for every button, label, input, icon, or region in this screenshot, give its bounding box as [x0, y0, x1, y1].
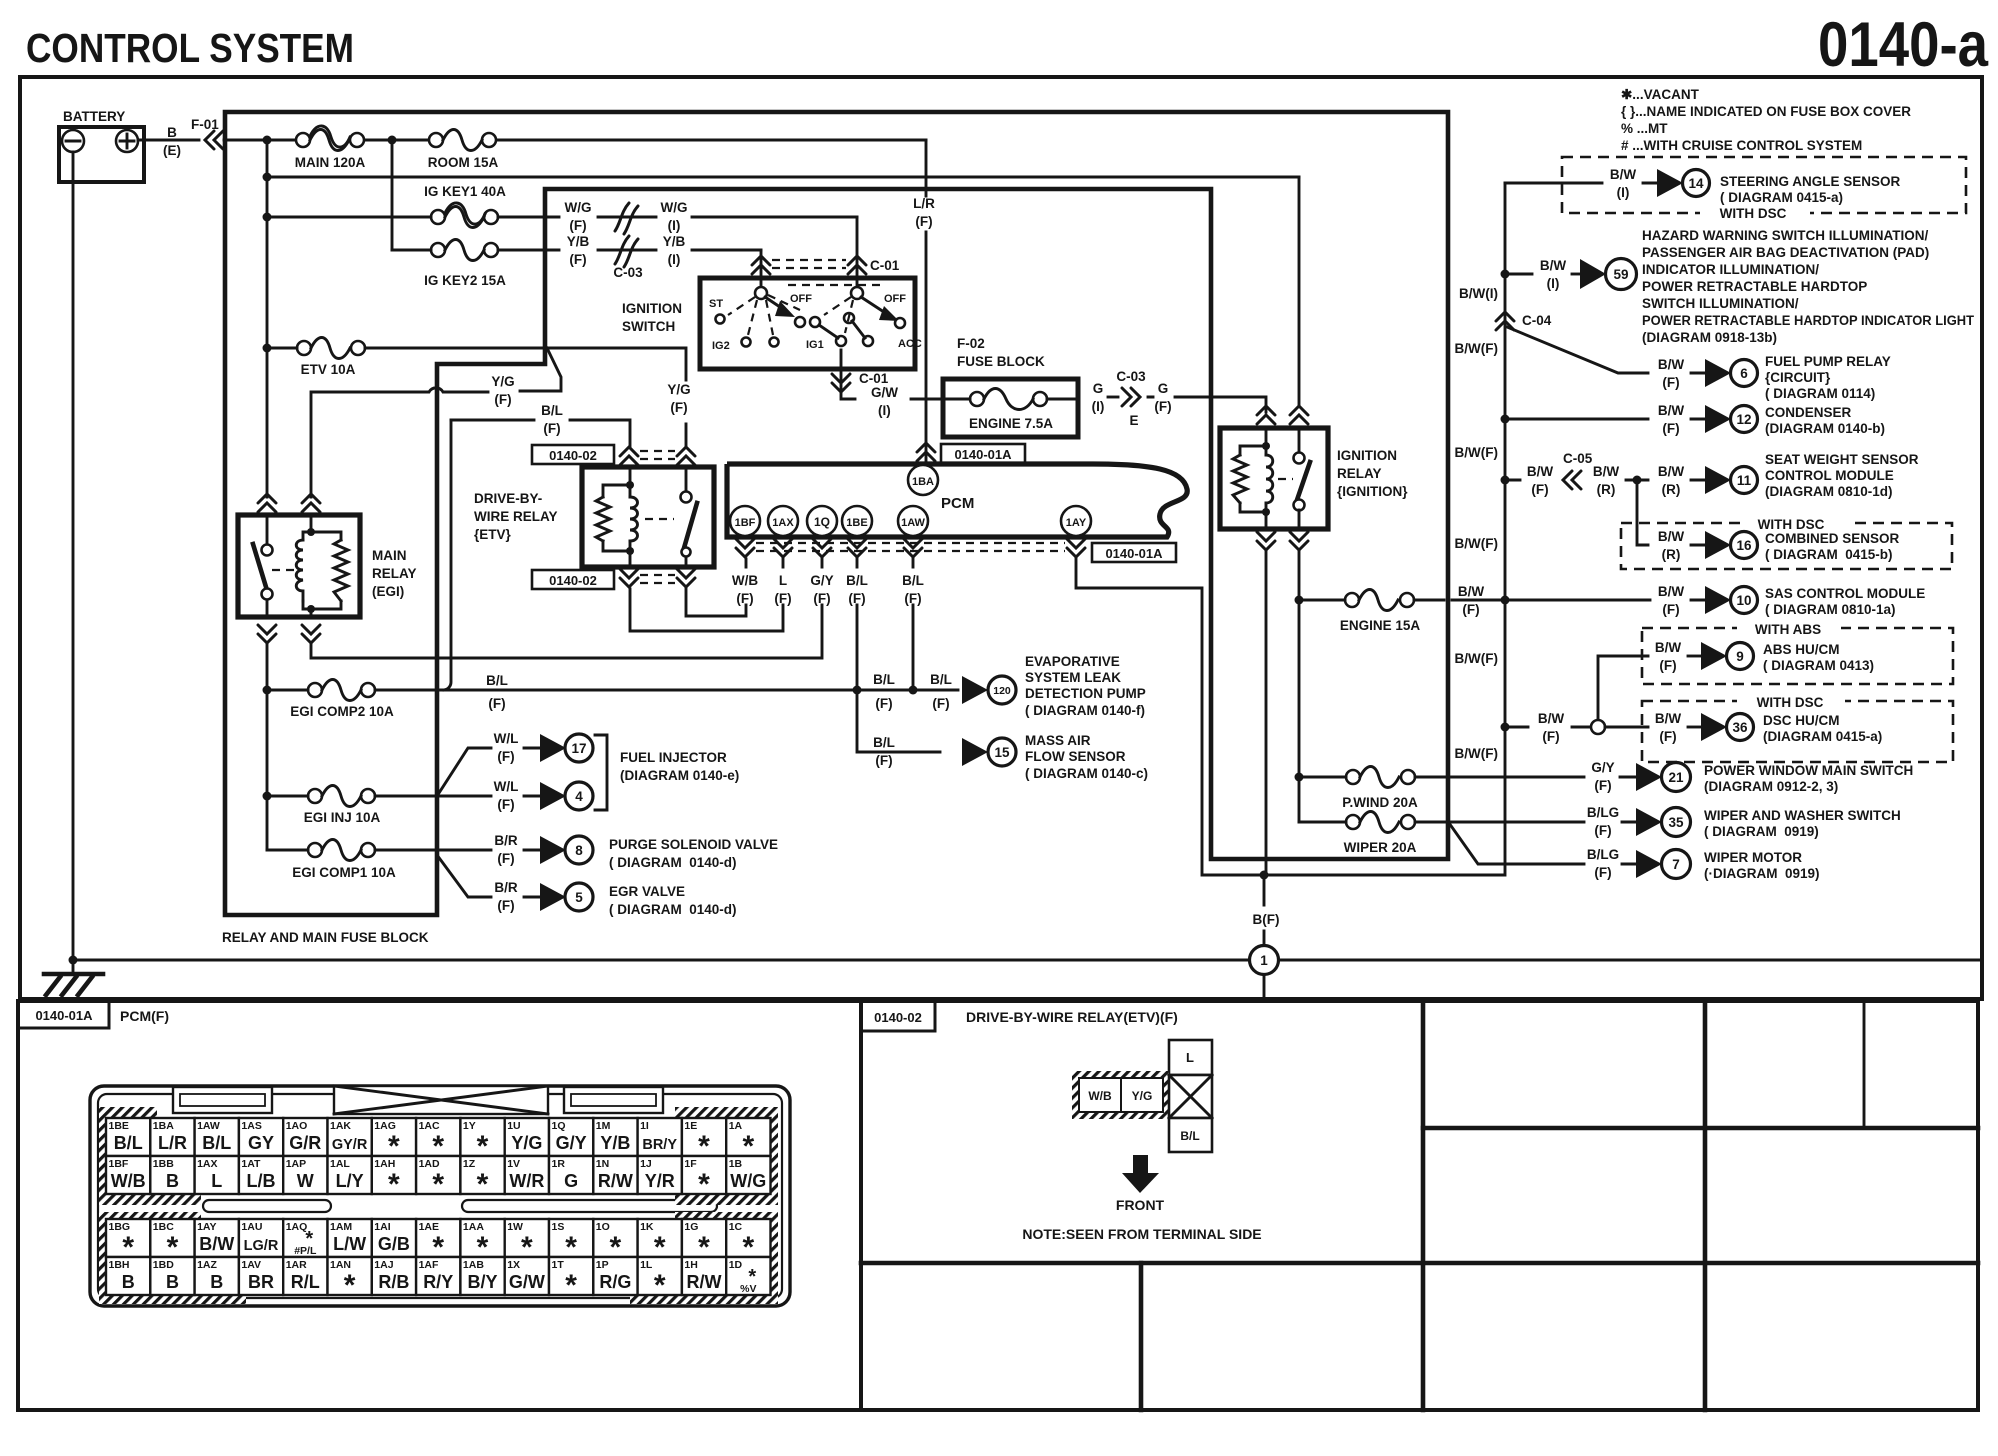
wire bus2 y177 [267, 176, 1299, 179]
svg-text:IG2: IG2 [712, 340, 730, 352]
svg-text:1AB: 1AB [463, 1259, 484, 1271]
svg-text:(DIAGRAM 0912-2, 3): (DIAGRAM 0912-2, 3) [1704, 779, 1838, 794]
svg-text:RELAY: RELAY [372, 566, 417, 581]
svg-text:% ...MT: % ...MT [1621, 121, 1668, 136]
svg-text:B/W: B/W [1593, 464, 1620, 479]
svg-text:R/W: R/W [687, 1272, 722, 1292]
svg-text:1H: 1H [684, 1259, 697, 1271]
svg-text:9: 9 [1736, 649, 1744, 664]
svg-text:B/L: B/L [846, 573, 868, 588]
svg-text:CONTROL MODULE: CONTROL MODULE [1765, 468, 1894, 483]
wire W/L to fuel injectors [375, 748, 491, 796]
svg-text:EGR VALVE: EGR VALVE [609, 884, 685, 899]
connector diagram drive-by-wire relay pins [1022, 1040, 1261, 1242]
svg-text:1AK: 1AK [330, 1120, 351, 1132]
svg-text:B: B [122, 1272, 135, 1292]
svg-text:Y/G: Y/G [667, 382, 690, 397]
svg-text:W/G: W/G [730, 1171, 766, 1191]
center lock X [334, 1086, 548, 1114]
wire Y/B into switch left post [760, 250, 763, 286]
device steering angle sensor 14 [1505, 167, 1901, 205]
pin 1AX [768, 506, 798, 536]
svg-text:1AS: 1AS [241, 1120, 261, 1132]
svg-text:( DIAGRAM 0919): ( DIAGRAM 0919) [1704, 824, 1819, 839]
svg-text:(F): (F) [1542, 729, 1559, 744]
bracket and label fuel injector [595, 735, 607, 810]
svg-text:B/W(I): B/W(I) [1459, 286, 1498, 301]
svg-text:L/W: L/W [333, 1234, 366, 1254]
wire battery feed vertical [266, 140, 269, 497]
svg-text:ACC: ACC [898, 338, 922, 350]
svg-text:ST: ST [709, 298, 723, 310]
svg-text:FRONT: FRONT [1116, 1197, 1165, 1213]
svg-text:B/W: B/W [1658, 403, 1685, 418]
svg-text:1N: 1N [596, 1158, 609, 1170]
svg-text:B/W(F): B/W(F) [1455, 341, 1498, 356]
svg-text:%V: %V [740, 1283, 756, 1295]
svg-text:1V: 1V [507, 1158, 520, 1170]
svg-text:1AY: 1AY [197, 1221, 216, 1233]
svg-text:G: G [1093, 381, 1104, 396]
fuse ETV 10A [263, 338, 366, 378]
wire ignition relay coil ground B(F) [1265, 552, 1268, 875]
svg-text:1AZ: 1AZ [197, 1259, 217, 1271]
svg-text:L/R: L/R [913, 196, 935, 211]
device fuel injector 4 [494, 779, 593, 812]
svg-text:8: 8 [575, 843, 583, 858]
svg-text:( DIAGRAM 0140-d): ( DIAGRAM 0140-d) [609, 902, 737, 917]
device ABS HU/CM 9 [1598, 640, 1874, 721]
svg-text:B/W: B/W [1538, 711, 1565, 726]
dashed box with ABS [1642, 620, 1953, 684]
wire IG KEY1 output W/G [498, 216, 559, 219]
svg-text:W/B: W/B [111, 1171, 146, 1191]
svg-text:1Q: 1Q [814, 515, 830, 529]
wire B/W to SAS module [1452, 599, 1650, 602]
connector 0140-02 upper (drive-by-wire relay) [532, 445, 695, 465]
svg-text:(F): (F) [875, 753, 892, 768]
svg-text:0140-02: 0140-02 [874, 1010, 922, 1025]
grid lines [1421, 1001, 1426, 1410]
svg-text:C-03: C-03 [1116, 369, 1146, 384]
svg-text:COMBINED SENSOR: COMBINED SENSOR [1765, 531, 1900, 546]
svg-text:1Z: 1Z [463, 1158, 476, 1170]
svg-text:DETECTION PUMP: DETECTION PUMP [1025, 686, 1146, 701]
svg-text:(E): (E) [163, 143, 181, 158]
svg-text:1A: 1A [729, 1120, 743, 1132]
wire main relay output down to EGI fuses [266, 645, 269, 850]
svg-text:G/Y: G/Y [556, 1133, 587, 1153]
svg-text:B/L: B/L [873, 735, 895, 750]
svg-text:WIPER MOTOR: WIPER MOTOR [1704, 850, 1802, 865]
latch tab right [564, 1087, 663, 1113]
svg-text:R/G: R/G [599, 1272, 631, 1292]
svg-text:# ...WITH CRUISE CONTROL SYSTE: # ...WITH CRUISE CONTROL SYSTEM [1621, 138, 1862, 153]
device EGR valve 5 [494, 880, 736, 917]
svg-text:L: L [211, 1171, 222, 1191]
svg-text:FUEL INJECTOR: FUEL INJECTOR [620, 750, 727, 765]
svg-text:(F): (F) [569, 252, 586, 267]
svg-text:1AJ: 1AJ [374, 1259, 393, 1271]
svg-text:POWER RETRACTABLE HARDTOP INDI: POWER RETRACTABLE HARDTOP INDICATOR LIGH… [1642, 313, 1975, 328]
svg-text:C-01: C-01 [870, 258, 900, 273]
svg-text:1AX: 1AX [197, 1158, 217, 1170]
svg-text:B/W: B/W [1658, 584, 1685, 599]
table right drive-by-wire relay [861, 1001, 1978, 1410]
svg-text:(F): (F) [1594, 865, 1611, 880]
svg-text:POWER WINDOW MAIN SWITCH: POWER WINDOW MAIN SWITCH [1704, 763, 1913, 778]
coil assembly [1265, 428, 1268, 529]
device power window main switch 21 [1591, 760, 1913, 794]
module PCM outline [727, 464, 1187, 537]
svg-text:*: * [344, 1269, 356, 1302]
svg-text:FLOW SENSOR: FLOW SENSOR [1025, 749, 1126, 764]
fuse ENGINE 15A [1295, 590, 1445, 634]
device illumination group 59 [1501, 228, 1975, 345]
svg-text:OFF: OFF [884, 293, 906, 305]
ground chassis symbol [44, 960, 103, 995]
svg-text:(R): (R) [1662, 482, 1681, 497]
svg-text:G/Y: G/Y [1591, 760, 1614, 775]
wire sub-feed vertical x392 [391, 140, 394, 250]
svg-text:WIRE RELAY: WIRE RELAY [474, 509, 558, 524]
svg-text:Y/G: Y/G [491, 374, 514, 389]
svg-text:B/L: B/L [486, 673, 508, 688]
svg-text:1AI: 1AI [374, 1221, 390, 1233]
svg-text:(F): (F) [497, 898, 514, 913]
svg-text:LG/R: LG/R [244, 1238, 279, 1254]
svg-text:G/Y: G/Y [810, 573, 833, 588]
svg-text:(·DIAGRAM 0919): (·DIAGRAM 0919) [1704, 866, 1820, 881]
ignition switch SW1 [622, 278, 922, 369]
device fuel injector 17 [494, 731, 593, 764]
svg-text:B/W: B/W [199, 1234, 234, 1254]
connector C-03 labels W/G Y/B [565, 200, 688, 280]
svg-text:{CIRCUIT}: {CIRCUIT} [1765, 370, 1831, 385]
svg-text:(F): (F) [1154, 399, 1171, 414]
svg-text:{ }...NAME INDICATED ON FUSE B: { }...NAME INDICATED ON FUSE BOX COVER [1621, 104, 1911, 119]
svg-text:120: 120 [993, 685, 1011, 697]
svg-text:B/W: B/W [1458, 584, 1485, 599]
svg-text:{ETV}: {ETV} [474, 527, 512, 542]
svg-text:1Q: 1Q [552, 1120, 566, 1132]
svg-text:12: 12 [1736, 412, 1751, 427]
svg-text:P.WIND 20A: P.WIND 20A [1342, 795, 1418, 810]
svg-text:59: 59 [1613, 267, 1628, 282]
svg-text:ENGINE 15A: ENGINE 15A [1340, 618, 1421, 633]
svg-text:(DIAGRAM 0140-e): (DIAGRAM 0140-e) [620, 768, 739, 783]
svg-text:{IGNITION}: {IGNITION} [1337, 484, 1408, 499]
svg-text:DSC HU/CM: DSC HU/CM [1763, 713, 1840, 728]
hatched key groups [99, 1107, 778, 1304]
svg-text:1AX: 1AX [772, 517, 794, 529]
svg-text:0140-01A: 0140-01A [1105, 546, 1163, 561]
svg-text:1BF: 1BF [735, 517, 756, 529]
svg-text:1R: 1R [552, 1158, 566, 1170]
svg-text:WIPER 20A: WIPER 20A [1344, 840, 1417, 855]
connector 0140-01A above PCM [917, 443, 1025, 463]
svg-text:B/W(F): B/W(F) [1455, 445, 1498, 460]
svg-text:Y/B: Y/B [567, 234, 590, 249]
wire B/L rail to evap pump [375, 689, 958, 692]
svg-text:RELAY: RELAY [1337, 466, 1382, 481]
svg-text:B: B [167, 125, 177, 140]
svg-text:B/Y: B/Y [467, 1272, 497, 1292]
svg-text:EGI COMP1 10A: EGI COMP1 10A [292, 865, 396, 880]
svg-text:( DIAGRAM 0140-c): ( DIAGRAM 0140-c) [1025, 766, 1148, 781]
device wiper motor 7 [1587, 847, 1820, 881]
device SAS control module 10 [1501, 584, 1926, 617]
svg-text:(DIAGRAM 0140-b): (DIAGRAM 0140-b) [1765, 421, 1885, 436]
svg-text:G/W: G/W [509, 1272, 545, 1292]
wire L/R from ROOM fuse down to PCM [925, 140, 928, 464]
svg-text:B/W: B/W [1658, 357, 1685, 372]
switch left [262, 545, 273, 556]
svg-text:FUSE BLOCK: FUSE BLOCK [957, 354, 1045, 369]
svg-text:B/W(F): B/W(F) [1455, 746, 1498, 761]
main diagram border frame [20, 77, 1982, 999]
wire 1AW B/L down to evap line [912, 559, 915, 690]
device condenser 12 [1501, 403, 1886, 436]
fuse block F-02 [943, 336, 1078, 437]
svg-text:1AO: 1AO [286, 1120, 308, 1132]
svg-text:IG KEY2 15A: IG KEY2 15A [424, 273, 506, 288]
svg-text:ENGINE 7.5A: ENGINE 7.5A [969, 416, 1053, 431]
relay K3 ignition relay [1220, 428, 1408, 529]
svg-text:(DIAGRAM 0810-1d): (DIAGRAM 0810-1d) [1765, 484, 1893, 499]
svg-text:(F): (F) [1659, 729, 1676, 744]
svg-text:1AW: 1AW [901, 517, 925, 529]
svg-text:GY/R: GY/R [332, 1137, 368, 1153]
table left PCM(F) [18, 1001, 861, 1410]
connector chevrons ignition relay [1257, 406, 1275, 424]
svg-text:(F): (F) [543, 421, 560, 436]
svg-text:(F): (F) [915, 214, 932, 229]
svg-text:R/Y: R/Y [423, 1272, 453, 1292]
svg-text:7: 7 [1672, 857, 1680, 872]
svg-text:B/W(F): B/W(F) [1455, 651, 1498, 666]
svg-text:Y/G: Y/G [1132, 1089, 1153, 1103]
svg-text:1BH: 1BH [109, 1259, 130, 1271]
svg-text:G/R: G/R [289, 1133, 321, 1153]
svg-text:B: B [210, 1272, 223, 1292]
svg-text:(F): (F) [1662, 602, 1679, 617]
svg-text:1F: 1F [684, 1158, 697, 1170]
svg-text:B/W: B/W [1655, 711, 1682, 726]
svg-text:(I): (I) [878, 403, 891, 418]
svg-text:1D: 1D [729, 1259, 743, 1271]
svg-text:PASSENGER AIR BAG DEACTIVATION: PASSENGER AIR BAG DEACTIVATION (PAD) [1642, 245, 1929, 260]
middle guide slots [203, 1200, 331, 1212]
svg-text:ABS HU/CM: ABS HU/CM [1763, 642, 1840, 657]
battery BT [59, 109, 144, 182]
svg-text:FUEL PUMP RELAY: FUEL PUMP RELAY [1765, 354, 1891, 369]
svg-text:C-04: C-04 [1522, 313, 1552, 328]
svg-text:1AV: 1AV [241, 1259, 261, 1271]
svg-text:*: * [388, 1168, 400, 1201]
svg-text:( DIAGRAM 0114): ( DIAGRAM 0114) [1765, 386, 1875, 401]
fuse WIPER 20A [1299, 812, 1584, 856]
dashed box with DSC (DSC HU/CM) [1642, 693, 1953, 762]
svg-text:(F): (F) [494, 392, 511, 407]
svg-text:1T: 1T [552, 1259, 565, 1271]
svg-text:L/B: L/B [247, 1171, 276, 1191]
svg-text:(F): (F) [497, 851, 514, 866]
svg-text:5: 5 [575, 890, 583, 905]
svg-text:G/W: G/W [871, 385, 898, 400]
svg-text:MAIN: MAIN [372, 548, 407, 563]
pin 1BE [842, 506, 872, 536]
svg-text:WITH ABS: WITH ABS [1755, 622, 1821, 637]
device evaporative system leak detection pump 120 [873, 654, 1146, 718]
svg-text:NOTE:SEEN FROM TERMINAL SIDE: NOTE:SEEN FROM TERMINAL SIDE [1022, 1226, 1261, 1242]
svg-text:1BD: 1BD [153, 1259, 174, 1271]
svg-text:(F): (F) [488, 696, 505, 711]
svg-text:1AY: 1AY [1066, 517, 1087, 529]
svg-text:SWITCH ILLUMINATION/: SWITCH ILLUMINATION/ [1642, 296, 1799, 311]
svg-text:B/W: B/W [1527, 464, 1554, 479]
svg-text:1S: 1S [552, 1221, 565, 1233]
svg-text:(F): (F) [1659, 658, 1676, 673]
svg-text:1O: 1O [596, 1221, 610, 1233]
svg-text:1AP: 1AP [286, 1158, 306, 1170]
fuse EGI COMP1 10A [267, 840, 396, 881]
svg-text:1AR: 1AR [286, 1259, 307, 1271]
svg-text:B/R: B/R [494, 833, 518, 848]
wire bus2 down into relay switch [1298, 177, 1301, 406]
svg-text:(I): (I) [668, 252, 681, 267]
svg-text:0140-02: 0140-02 [549, 448, 597, 463]
fuse EGI INJ 10A [263, 786, 381, 826]
svg-text:C-01: C-01 [859, 371, 889, 386]
svg-text:16: 16 [1736, 538, 1752, 553]
svg-text:B/L: B/L [902, 573, 924, 588]
fuse MAIN 120A [295, 126, 366, 170]
svg-text:Y/R: Y/R [645, 1171, 675, 1191]
svg-text:B/W: B/W [1658, 529, 1685, 544]
svg-text:B/L: B/L [114, 1133, 143, 1153]
svg-text:DRIVE-BY-: DRIVE-BY- [474, 491, 542, 506]
wire DBW switch out to PCM 1BF [686, 559, 746, 616]
svg-text:W/G: W/G [565, 200, 592, 215]
svg-text:(F): (F) [497, 797, 514, 812]
svg-text:( DIAGRAM 0415-b): ( DIAGRAM 0415-b) [1765, 547, 1893, 562]
connector C-01 above ignition switch [752, 256, 900, 274]
left bank [755, 287, 767, 299]
wire wiper motor branch diagonal [1449, 823, 1584, 864]
dashed box with DSC (steering angle sensor) [1562, 157, 1966, 221]
svg-text:RELAY AND MAIN FUSE BLOCK: RELAY AND MAIN FUSE BLOCK [222, 930, 429, 945]
latch tab left [173, 1087, 272, 1113]
svg-text:(I): (I) [668, 218, 681, 233]
wire 1AY ground path [1076, 559, 1504, 875]
pin 1BF [730, 506, 760, 536]
svg-text:R/L: R/L [291, 1272, 320, 1292]
svg-text:36: 36 [1732, 720, 1748, 735]
svg-text:0140-a: 0140-a [1818, 10, 1989, 80]
wire main B+ bus from battery [224, 139, 926, 142]
device fuel pump relay 6 [1507, 327, 1891, 401]
fuse IG KEY2 15A [392, 240, 506, 289]
pin 1BA [908, 465, 938, 495]
svg-text:1X: 1X [507, 1259, 520, 1271]
wire bold B+ routing path top [225, 112, 1448, 915]
svg-text:ROOM 15A: ROOM 15A [428, 155, 499, 170]
svg-text:(I): (I) [1547, 276, 1560, 291]
svg-text:11: 11 [1737, 473, 1752, 488]
svg-text:DRIVE-BY-WIRE RELAY(ETV)(F): DRIVE-BY-WIRE RELAY(ETV)(F) [966, 1009, 1178, 1025]
svg-text:G: G [564, 1171, 578, 1191]
svg-text:15: 15 [994, 745, 1010, 760]
device mass air flow sensor 15 [873, 733, 1148, 781]
svg-text:1U: 1U [507, 1120, 520, 1132]
svg-text:B/W: B/W [1610, 167, 1637, 182]
svg-text:E: E [1129, 413, 1138, 428]
svg-text:1Y: 1Y [463, 1120, 476, 1132]
svg-text:BR: BR [248, 1272, 274, 1292]
svg-text:1J: 1J [640, 1158, 652, 1170]
front arrow [1133, 1155, 1148, 1173]
svg-text:SYSTEM LEAK: SYSTEM LEAK [1025, 670, 1121, 685]
connector PCM shell outline [90, 1086, 790, 1306]
svg-text:1G: 1G [684, 1221, 698, 1233]
svg-text:B/L: B/L [1180, 1129, 1199, 1143]
svg-text:MASS AIR: MASS AIR [1025, 733, 1091, 748]
svg-text:35: 35 [1668, 815, 1684, 830]
svg-text:C-05: C-05 [1563, 451, 1593, 466]
svg-text:1C: 1C [729, 1221, 743, 1233]
connector chevrons main relay [258, 494, 276, 512]
svg-text:INDICATOR ILLUMINATION/: INDICATOR ILLUMINATION/ [1642, 262, 1819, 277]
svg-text:CONDENSER: CONDENSER [1765, 405, 1852, 420]
svg-text:( DIAGRAM 0140-d): ( DIAGRAM 0140-d) [609, 855, 737, 870]
device wiper and washer switch 35 [1587, 805, 1901, 839]
wire B(F) to ground point 1 [1263, 875, 1266, 945]
svg-text:HAZARD WARNING SWITCH ILLUMINA: HAZARD WARNING SWITCH ILLUMINATION/ [1642, 228, 1928, 243]
svg-text:B/R: B/R [494, 880, 518, 895]
pin 1AY [1061, 506, 1091, 536]
svg-text:B: B [166, 1171, 179, 1191]
node ground point 1 [1250, 946, 1279, 975]
relay K2 main relay (EGI) [238, 515, 417, 617]
svg-text:(DIAGRAM 0415-a): (DIAGRAM 0415-a) [1763, 729, 1882, 744]
svg-text:W/L: W/L [494, 779, 519, 794]
svg-text:(F): (F) [1594, 778, 1611, 793]
switch [1294, 453, 1305, 464]
svg-text:WITH DSC: WITH DSC [1757, 695, 1824, 710]
fuse IG KEY1 40A [263, 184, 507, 228]
svg-text:W/L: W/L [494, 731, 519, 746]
svg-text:1K: 1K [640, 1221, 654, 1233]
svg-text:( DIAGRAM 0810-1a): ( DIAGRAM 0810-1a) [1765, 602, 1896, 617]
svg-text:PCM: PCM [941, 495, 974, 512]
svg-text:(F): (F) [1662, 421, 1679, 436]
wire bottom ground bus [73, 959, 1982, 962]
wire B/R to purge and EGR [375, 850, 491, 897]
svg-text:IG1: IG1 [806, 339, 824, 351]
svg-text:W/B: W/B [1088, 1089, 1112, 1103]
svg-text:(EGI): (EGI) [372, 584, 404, 599]
svg-text:1BB: 1BB [153, 1158, 174, 1170]
svg-text:1AT: 1AT [241, 1158, 261, 1170]
connector 0140-02 lower [532, 569, 695, 589]
svg-text:0140-02: 0140-02 [549, 573, 597, 588]
svg-text:1I: 1I [640, 1120, 649, 1132]
svg-text:B/LG: B/LG [1587, 805, 1619, 820]
svg-text:W/G: W/G [661, 200, 688, 215]
svg-text:W/B: W/B [732, 573, 758, 588]
svg-text:1AQ: 1AQ [286, 1221, 308, 1233]
